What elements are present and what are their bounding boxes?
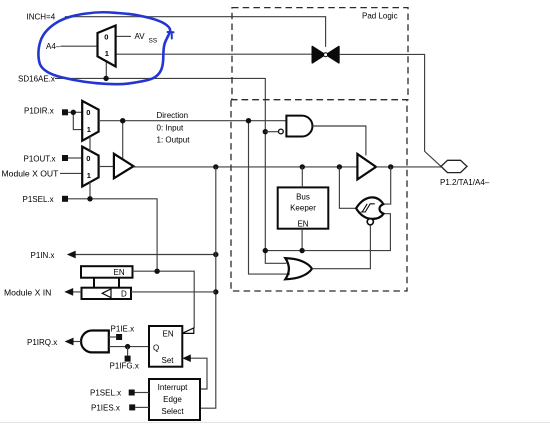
wire P1DIR branch to input 1 xyxy=(73,112,82,129)
svg-text:1: Output: 1: Output xyxy=(157,135,191,144)
mux U_A4 (analog input mux) xyxy=(98,26,116,67)
wire Direction net xyxy=(99,120,286,122)
mux U_OUT (output mux) xyxy=(82,147,98,187)
wire P1OUT.x input xyxy=(68,157,82,159)
wire flag Q to AND xyxy=(109,346,149,348)
OR gate (input buffer enable) xyxy=(285,258,312,279)
wire analog switch to pad xyxy=(340,54,441,166)
terminal square P1SEL.x (interrupt) xyxy=(129,390,135,396)
junction P1SEL/EN xyxy=(154,269,159,274)
terminal square P1SEL.x xyxy=(62,196,68,202)
svg-text:P1.2/TA1/A4–: P1.2/TA1/A4– xyxy=(440,178,490,187)
Interrupt Edge Select box xyxy=(149,379,200,420)
wire schmitt input from pad xyxy=(383,167,390,204)
wire latch EN net xyxy=(133,271,195,328)
svg-text:P1OUT.x: P1OUT.x xyxy=(24,154,56,163)
NAND gate (pad logic) xyxy=(279,116,313,137)
svg-text:Module X OUT: Module X OUT xyxy=(2,169,60,179)
wire P1IES.x input xyxy=(135,406,149,408)
latch clock triangle xyxy=(102,289,111,298)
svg-text:D: D xyxy=(121,289,127,298)
svg-text:EN: EN xyxy=(163,329,174,338)
junction SD16AE/select xyxy=(103,76,108,81)
wire INCH=4 net xyxy=(65,17,326,47)
svg-text:1: 1 xyxy=(87,125,91,134)
arrow P1IRQ.x xyxy=(65,338,74,346)
wire bus keeper top stub xyxy=(301,167,303,188)
terminal square P1OUT.x xyxy=(62,155,68,161)
svg-text:Direction: Direction xyxy=(157,111,189,120)
svg-text:P1SEL.x: P1SEL.x xyxy=(90,388,121,397)
flag latch clock wedge xyxy=(182,328,194,334)
svg-text:P1IE.x: P1IE.x xyxy=(111,325,135,334)
wire pad-side net xyxy=(376,166,441,168)
wire schmitt tap (internal) xyxy=(339,167,356,208)
wire A4 input xyxy=(61,45,98,47)
junction output/bus keeper xyxy=(300,164,305,169)
svg-text:Module X IN: Module X IN xyxy=(4,287,51,297)
svg-text:0: 0 xyxy=(104,32,108,41)
svg-text:1: 1 xyxy=(105,49,109,58)
wire Module X IN / D wire xyxy=(73,291,216,293)
junction direction/enable xyxy=(120,118,125,123)
svg-text:P1IN.x: P1IN.x xyxy=(31,251,55,260)
transmission gate (analog switch) xyxy=(312,47,339,63)
svg-text:P1IES.x: P1IES.x xyxy=(91,403,120,412)
svg-text:0: 0 xyxy=(86,154,90,163)
faint page rule at bottom xyxy=(0,422,550,424)
wire mux input 1 to analog switch xyxy=(116,53,312,55)
terminal square P1IFG.x xyxy=(125,356,131,362)
junction SD16/keeper net xyxy=(263,248,268,253)
wire P1DIR.x input xyxy=(68,111,82,113)
junction SD16AE/NAND input xyxy=(263,129,268,134)
svg-text:AV: AV xyxy=(135,32,146,41)
dashed box Pad Logic (upper) xyxy=(232,8,408,100)
wire Set input xyxy=(188,358,207,389)
svg-text:P1IFG.x: P1IFG.x xyxy=(110,361,139,370)
svg-text:0: 0 xyxy=(86,108,90,117)
pad driver buffer xyxy=(357,154,376,179)
wire AVSS stub (mux input 0) xyxy=(116,35,131,37)
wire SD16AE.x net xyxy=(55,78,287,263)
latch connectors xyxy=(94,278,119,288)
svg-text:0: Input: 0: Input xyxy=(157,123,184,132)
wire output buffer enable xyxy=(122,121,124,160)
junction output/P1IN branch xyxy=(213,164,218,169)
svg-text:Bus: Bus xyxy=(296,193,310,202)
wire keeper enable net xyxy=(265,214,390,251)
wire mux select stem xyxy=(105,62,107,79)
wire P1IE input xyxy=(109,336,116,338)
svg-text:SS: SS xyxy=(149,38,158,45)
junction direction/OR branch xyxy=(246,118,251,123)
svg-text:A4–: A4– xyxy=(46,42,61,51)
wire bus keeper EN stub xyxy=(301,229,303,251)
wire NAND lower input xyxy=(265,131,278,133)
dashed box pad logic (lower) xyxy=(231,100,407,291)
wire vertical internal tap xyxy=(200,167,216,408)
junction P1IN/vertical xyxy=(213,252,218,257)
wire IRQ output xyxy=(73,341,81,343)
input latch EN box xyxy=(81,266,133,278)
svg-text:P1IRQ.x: P1IRQ.x xyxy=(27,338,57,347)
wire direction to OR gate (vertical) xyxy=(249,121,291,274)
wire Module X OUT input xyxy=(60,172,82,174)
wire internal output net xyxy=(134,166,358,168)
junction P1DIR branch xyxy=(71,110,76,115)
svg-text:EN: EN xyxy=(114,268,125,277)
svg-text:P1DIR.x: P1DIR.x xyxy=(24,107,54,116)
pin hexagon P1.2 xyxy=(441,160,467,172)
output driver buffer xyxy=(114,154,134,179)
wire NAND output to pad driver enable xyxy=(313,126,366,156)
svg-text:EN: EN xyxy=(297,219,308,228)
wire P1IN.x net xyxy=(75,254,216,256)
svg-text:SD16AE.x: SD16AE.x xyxy=(18,74,55,83)
wire P1SEL.x (interrupt) input xyxy=(135,392,150,394)
svg-text:Select: Select xyxy=(161,407,184,416)
svg-text:Pad Logic: Pad Logic xyxy=(362,11,398,20)
blue hook xyxy=(168,32,174,39)
arrow P1IN.x xyxy=(67,251,76,259)
interrupt flag latch box xyxy=(149,326,182,367)
input latch D box xyxy=(82,288,132,299)
junction vertical/D wire xyxy=(213,289,218,294)
arrow Module X IN xyxy=(64,288,73,296)
junction output/schmitt tap xyxy=(337,164,342,169)
junction keeper stub xyxy=(299,248,304,253)
wire OR output to schmitt enable bubble xyxy=(312,225,370,269)
wire mux to output buffer xyxy=(99,166,114,168)
junction Q/P1IFG xyxy=(125,344,130,349)
wire mux select stems xyxy=(89,136,91,198)
blue hand-drawn loop annotation xyxy=(38,12,170,84)
svg-text:Q: Q xyxy=(153,344,159,353)
svg-text:Interrupt: Interrupt xyxy=(158,383,189,392)
wire P1SEL.x net xyxy=(68,199,157,271)
wire P1IFG stub xyxy=(127,347,129,356)
svg-text:Keeper: Keeper xyxy=(290,204,316,213)
mux U_DIR (direction mux) xyxy=(82,101,98,141)
junction pad-side/schmitt input xyxy=(388,164,393,169)
terminal square P1DIR.x xyxy=(62,109,68,115)
AND gate P1IRQ xyxy=(81,331,109,353)
schmitt trigger input buffer xyxy=(356,197,383,225)
junction P1SEL/select xyxy=(87,196,92,201)
Bus Keeper box xyxy=(278,187,329,228)
arrow Set xyxy=(182,354,191,362)
terminal square P1IE.x xyxy=(116,334,122,340)
svg-text:Set: Set xyxy=(162,356,175,365)
svg-text:Edge: Edge xyxy=(163,395,182,404)
terminal square P1IES.x xyxy=(129,404,135,410)
svg-text:P1SEL.x: P1SEL.x xyxy=(23,195,54,204)
svg-text:1: 1 xyxy=(87,171,91,180)
svg-text:INCH=4: INCH=4 xyxy=(27,12,56,21)
